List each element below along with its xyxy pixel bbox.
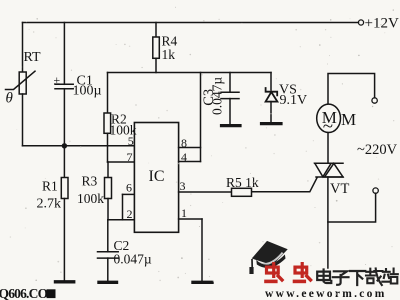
watermark CJK char zhan — [382, 269, 398, 284]
capacitor C1 plates — [55, 84, 73, 88]
svg-text:0.047µ: 0.047µ — [114, 252, 152, 267]
resistor R5 body — [232, 188, 252, 196]
svg-text:R1: R1 — [42, 179, 58, 194]
svg-text:www.eeworm.com: www.eeworm.com — [265, 288, 387, 300]
diode VS triangle — [266, 92, 278, 102]
ground C3 bar — [222, 124, 241, 127]
svg-text:8: 8 — [181, 136, 187, 150]
watermark bug char 1 — [264, 262, 283, 281]
op-amp IC box U1 — [134, 123, 178, 233]
resistor R1 body — [61, 178, 68, 199]
ground VS bar — [262, 122, 282, 125]
watermark cap underside gray — [258, 253, 282, 264]
wire C2 bottom — [107, 258, 109, 281]
watermark CJK char xia — [350, 271, 365, 285]
ground R1 bar — [56, 280, 74, 283]
svg-text:7: 7 — [127, 150, 133, 164]
triac VT top bar — [315, 162, 344, 164]
wire triac bottom — [327, 177, 329, 268]
wire pin 2 line — [108, 219, 134, 221]
wire C3 bottom — [229, 99, 231, 124]
wire VS top — [270, 73, 272, 91]
wire pin 1 line — [179, 218, 202, 220]
wire RT branch top — [22, 23, 24, 73]
node A junction dot — [62, 143, 67, 148]
wire R4 top — [155, 23, 157, 38]
resistor RT body — [19, 72, 26, 94]
svg-text:5: 5 — [128, 134, 134, 148]
capacitor C2 plates — [98, 252, 119, 258]
capacitor C3 plates — [221, 92, 239, 98]
watermark cap dome — [256, 255, 285, 268]
svg-text:100k: 100k — [77, 191, 104, 206]
watermark cap tassel — [251, 259, 253, 267]
wire R3 top — [107, 162, 109, 178]
triac VT right triangle — [325, 163, 343, 177]
triac VT left triangle — [315, 163, 331, 177]
node +12V terminal circle — [358, 20, 363, 25]
svg-text:θ: θ — [6, 91, 14, 107]
wire +12V top rail — [23, 22, 359, 24]
wire R2 top — [107, 73, 109, 114]
svg-text:RT: RT — [24, 50, 41, 65]
wire R1 top — [63, 146, 65, 178]
wire motor bottom to triac — [327, 133, 329, 164]
node mains terminal 2 circle — [373, 188, 378, 193]
diode VS zener bar — [266, 88, 278, 95]
svg-text:0.047µ: 0.047µ — [210, 77, 225, 115]
wire mid rail — [108, 72, 272, 74]
wire pin 4 line — [179, 161, 201, 163]
wire C1 bottom — [63, 89, 65, 146]
wire R4 bottom — [155, 58, 157, 72]
svg-text:9.1V: 9.1V — [280, 93, 308, 108]
wire node A horizontal (RT/R1/C1 to pin5) — [23, 145, 135, 147]
svg-text:2.7k: 2.7k — [37, 197, 62, 212]
wire pin 6 line — [123, 193, 135, 195]
svg-text:~: ~ — [323, 116, 333, 137]
resistor R4 body — [153, 37, 160, 58]
wire pin 7 line — [108, 161, 135, 163]
wire RT bottom — [22, 94, 24, 146]
svg-text:100µ: 100µ — [73, 84, 102, 99]
wire triac gate — [252, 178, 317, 192]
svg-text:Q606.CO: Q606.CO — [0, 286, 48, 300]
watermark bug char 2 — [293, 262, 312, 281]
svg-text:2: 2 — [127, 207, 133, 221]
wire R3 bottom — [107, 199, 109, 220]
wire C3 top — [229, 73, 231, 93]
wire C1 top — [63, 23, 65, 85]
svg-text:M: M — [341, 110, 356, 129]
wire pin 3 line to R5 — [179, 191, 232, 193]
wire pin6-pin2 vertical link — [122, 194, 124, 219]
thermistor RT diagonal — [6, 71, 36, 89]
svg-text:~220V: ~220V — [357, 142, 398, 158]
wire VS bottom — [270, 102, 272, 122]
svg-text:R3: R3 — [82, 174, 98, 189]
wire pins 8/4 vertical to mid rail — [200, 73, 202, 162]
wire motor top link — [328, 74, 375, 105]
watermark CJK char zi — [333, 271, 349, 285]
resistor R2 body — [104, 113, 111, 133]
wire pin 8 line — [179, 147, 201, 149]
ground C2 bar — [99, 281, 117, 284]
svg-text:1: 1 — [181, 206, 187, 220]
svg-text:4: 4 — [181, 150, 187, 164]
ground pin1 bar — [193, 281, 212, 284]
svg-text:1k: 1k — [162, 47, 176, 62]
svg-text:R5 1k: R5 1k — [226, 175, 259, 190]
watermark CJK char zai — [366, 269, 383, 286]
svg-text:VT: VT — [330, 181, 349, 197]
wire R2 bottom to pin5 and pin7 lines — [107, 133, 109, 162]
watermark CJK char dian — [317, 270, 331, 284]
wire pin 1 down — [201, 219, 203, 281]
node mains terminal 1 circle — [372, 98, 377, 103]
svg-text:6: 6 — [126, 181, 132, 195]
wire R1 bottom — [63, 199, 65, 281]
resistor R3 body — [105, 178, 112, 199]
svg-text:+12V: +12V — [365, 16, 399, 32]
wire terminal 2 to triac bottom — [328, 193, 376, 222]
svg-text:±: ± — [54, 73, 61, 87]
watermark cap board — [252, 241, 288, 265]
svg-text:3: 3 — [180, 179, 186, 193]
triac VT bottom bar — [316, 176, 343, 178]
wire C2 top — [107, 220, 109, 252]
motor M circle — [317, 104, 341, 132]
svg-text:IC: IC — [149, 168, 165, 185]
